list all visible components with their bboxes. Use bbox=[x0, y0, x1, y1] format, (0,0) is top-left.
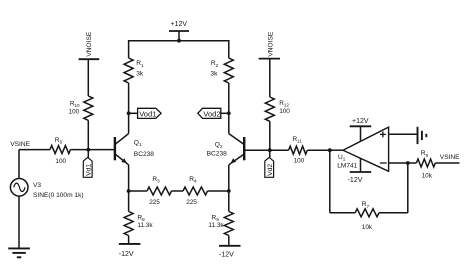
wire base node to R11 bbox=[270, 149, 289, 151]
wire R4 to Q2 emitter bbox=[208, 190, 229, 192]
wire base node to Q1 bbox=[88, 149, 115, 151]
svg-text:+12V: +12V bbox=[352, 118, 369, 125]
op-amp -12V stem bbox=[360, 158, 362, 172]
net flag Vd1 stem bbox=[87, 150, 89, 158]
svg-text:225: 225 bbox=[186, 199, 197, 206]
wire R10 to base node bbox=[87, 120, 89, 149]
svg-text:225: 225 bbox=[149, 199, 160, 206]
svg-text:3k: 3k bbox=[136, 71, 144, 78]
wire R3 to R4 bbox=[172, 190, 184, 192]
wire V3 to ground bbox=[18, 196, 20, 248]
svg-text:-12V: -12V bbox=[219, 252, 234, 259]
resistor R3 bbox=[147, 187, 172, 195]
svg-text:10k: 10k bbox=[362, 224, 373, 231]
svg-text:Vod1: Vod1 bbox=[139, 109, 156, 118]
wire emitter to R3 bbox=[129, 190, 147, 192]
node Q1 base junction bbox=[86, 148, 90, 152]
wire R6 to VSINE bbox=[435, 162, 459, 164]
svg-text:3k: 3k bbox=[210, 71, 218, 78]
net flag Vd2 bbox=[265, 157, 274, 177]
svg-text:100: 100 bbox=[55, 158, 66, 165]
resistor R1 bbox=[124, 58, 133, 83]
VNOISE left terminal bar bbox=[79, 58, 100, 60]
resistor R10 bbox=[84, 96, 93, 120]
node Q2 base junction bbox=[268, 148, 272, 152]
node op-amp output junction bbox=[328, 148, 332, 152]
wire + input to ground bbox=[389, 133, 417, 135]
wire rail to R2 bbox=[228, 40, 230, 58]
node Q1 emitter junction bbox=[127, 189, 131, 193]
node Q2 emitter junction bbox=[227, 189, 231, 193]
resistor R5 bbox=[50, 146, 71, 154]
wire emitter to R9 bbox=[228, 191, 230, 212]
ground (rotated, + input) bbox=[418, 127, 427, 144]
wire Vod2 tap bbox=[221, 112, 229, 114]
node - input junction bbox=[406, 161, 410, 165]
wire R1 to Q1 collector bbox=[128, 83, 130, 134]
wire Vod1 tap bbox=[129, 112, 138, 114]
wire VNOISE to R10 bbox=[87, 59, 89, 96]
transistor Q2 emitter diagonal bbox=[229, 154, 244, 165]
svg-text:+12V: +12V bbox=[171, 21, 188, 28]
svg-text:Vod2: Vod2 bbox=[203, 109, 220, 118]
resistor R4 bbox=[183, 187, 208, 195]
net flag Vd1 bbox=[83, 157, 92, 177]
voltage source V3 circle bbox=[10, 179, 28, 197]
ground (bottom left) bbox=[8, 248, 30, 257]
wire R12 to base node bbox=[269, 121, 271, 150]
transistor Q1 emitter diagonal bbox=[115, 154, 128, 165]
node Vod1 tap bbox=[127, 111, 131, 115]
node rail tap junction bbox=[177, 39, 181, 43]
wire feedback bottom left bbox=[330, 212, 355, 214]
wire VSINE down to V3 bbox=[18, 150, 20, 179]
wire feedback up to - node bbox=[407, 163, 409, 213]
resistor R9 bbox=[224, 212, 233, 236]
svg-text:100: 100 bbox=[279, 108, 290, 115]
op-amp - input symbol bbox=[380, 162, 387, 164]
wire - node to R6 bbox=[408, 162, 417, 164]
svg-text:Vd1: Vd1 bbox=[86, 164, 93, 176]
svg-text:VNOISE: VNOISE bbox=[268, 31, 275, 57]
wire R9 to -12V bbox=[228, 236, 230, 246]
node Vod2 tap bbox=[227, 111, 231, 115]
wire R11 to output node bbox=[307, 149, 330, 151]
transistor Q2 emitter arrow bbox=[231, 158, 237, 163]
+12V flag bar bbox=[169, 30, 189, 32]
net flag Vod2 bbox=[198, 108, 221, 118]
transistor Q2 base bar bbox=[243, 137, 245, 160]
svg-text:11.3k: 11.3k bbox=[208, 222, 224, 229]
svg-text:VSINE: VSINE bbox=[440, 154, 460, 161]
wire Q1 emitter to Q1 bbox=[128, 165, 130, 191]
svg-text:SINE(0 100m 1k): SINE(0 100m 1k) bbox=[33, 192, 84, 199]
wire R5 to base node bbox=[71, 149, 89, 151]
wire VNOISE to R12 bbox=[269, 59, 271, 97]
svg-text:VNOISE: VNOISE bbox=[86, 31, 93, 57]
op-amp +12V flag bar bbox=[350, 125, 372, 127]
svg-text:-12V: -12V bbox=[348, 177, 363, 184]
VNOISE right terminal bar bbox=[259, 58, 280, 60]
transistor Q1 collector diagonal bbox=[115, 134, 128, 145]
svg-text:100: 100 bbox=[69, 108, 80, 115]
net flag Vd2 stem bbox=[269, 150, 271, 157]
transistor Q1 base bar bbox=[114, 137, 116, 160]
wire Q2 to base node bbox=[244, 149, 270, 151]
transistor Q1 emitter arrow bbox=[121, 158, 127, 163]
resistor R2 bbox=[224, 58, 233, 83]
svg-text:100: 100 bbox=[294, 157, 305, 164]
wire Q2 emitter down bbox=[228, 165, 230, 191]
-12V flag bar (center) bbox=[219, 245, 241, 247]
svg-text:BC238: BC238 bbox=[207, 150, 227, 157]
op-amp +12V stem bbox=[360, 126, 362, 141]
resistor R8 bbox=[124, 212, 133, 236]
wire R2 to Q2 collector bbox=[228, 83, 230, 134]
resistor R12 bbox=[265, 97, 274, 121]
svg-text:Vd2: Vd2 bbox=[267, 164, 274, 176]
resistor R11 bbox=[289, 146, 308, 154]
resistor R7 bbox=[355, 209, 379, 217]
op-amp -12V flag bar bbox=[350, 171, 372, 173]
wire R8 to -12V bbox=[128, 236, 130, 244]
net flag Vod1 bbox=[138, 108, 162, 118]
op-amp U1 triangle bbox=[343, 127, 389, 171]
wire emitter to R8 bbox=[128, 191, 130, 212]
op-amp + input symbol bbox=[380, 132, 386, 138]
svg-text:VSINE: VSINE bbox=[10, 141, 30, 148]
+12V flag stem bbox=[178, 31, 180, 41]
resistor R6 bbox=[416, 159, 435, 167]
wire output node to apex bbox=[330, 149, 343, 151]
-12V flag bar (left) bbox=[119, 243, 140, 245]
svg-text:BC238: BC238 bbox=[134, 151, 154, 158]
svg-text:11.3k: 11.3k bbox=[137, 222, 153, 229]
wire +12V rail bbox=[129, 40, 229, 42]
wire feedback bottom right bbox=[379, 212, 408, 214]
transistor Q2 collector diagonal bbox=[229, 134, 244, 145]
wire output node down bbox=[329, 150, 331, 213]
svg-text:LM741: LM741 bbox=[337, 163, 357, 170]
wire rail to R1 bbox=[128, 40, 130, 58]
wire VSINE corner to R5 bbox=[19, 149, 50, 151]
wire - input to node bbox=[389, 162, 408, 164]
svg-text:V3: V3 bbox=[33, 182, 41, 189]
svg-text:-12V: -12V bbox=[119, 251, 134, 258]
svg-text:10k: 10k bbox=[422, 173, 433, 180]
